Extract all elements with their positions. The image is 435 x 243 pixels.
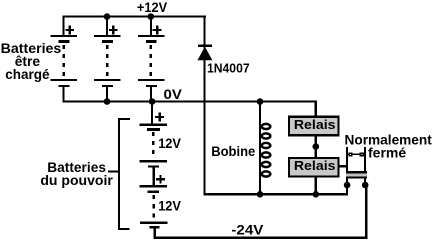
wire 0V rail xyxy=(63,100,317,102)
relay K1 box xyxy=(289,117,338,136)
battery P2 12V xyxy=(140,175,168,237)
label Normalement fermé xyxy=(345,131,433,160)
battery B1 xyxy=(51,18,78,101)
power battery stack wire from 0V xyxy=(151,103,153,124)
node dot 0V rail battery B2 xyxy=(104,98,111,105)
node dot between relays xyxy=(313,143,320,150)
inductor Bobine coil loops xyxy=(262,124,271,177)
node dot top rail battery B2 xyxy=(104,13,111,20)
node dot 0V rail battery B3 / power stack xyxy=(149,98,156,105)
battery B3 xyxy=(138,18,165,101)
contact NC right terminal xyxy=(364,147,366,185)
svg-text:Relais: Relais xyxy=(294,117,336,132)
svg-text:Relais: Relais xyxy=(294,158,336,173)
bracket power batteries xyxy=(108,118,130,230)
node dot bottom link coil xyxy=(257,191,264,198)
linkage bar (grey) xyxy=(346,171,367,179)
relay branch wire below box2 xyxy=(315,178,317,194)
coil branch wire xyxy=(259,103,261,194)
battery P1 12V xyxy=(140,113,167,186)
svg-text:fermé: fermé xyxy=(368,144,406,160)
wire contact right to -24V rail xyxy=(365,185,367,239)
svg-text:0V: 0V xyxy=(164,86,183,102)
node dot top rail battery B3 xyxy=(148,13,155,20)
svg-text:1N4007: 1N4007 xyxy=(207,61,250,76)
svg-text:+12V: +12V xyxy=(137,0,168,15)
wire -24V rail xyxy=(154,236,368,239)
node dot 0V rail coil branch xyxy=(257,98,264,105)
contact NC bridge xyxy=(348,152,364,156)
svg-text:12V: 12V xyxy=(158,135,181,151)
label Batteries du pouvoir xyxy=(40,159,113,188)
svg-text:du pouvoir: du pouvoir xyxy=(40,172,113,188)
contact NC left terminal xyxy=(346,147,348,195)
wire relay K2 to contact xyxy=(340,165,347,167)
label Batteries être chargé xyxy=(1,40,62,82)
node dot contact right xyxy=(362,182,369,189)
wire top +12V rail xyxy=(63,16,207,18)
svg-text:-24V: -24V xyxy=(231,222,264,238)
svg-text:Bobine: Bobine xyxy=(211,143,255,159)
diode D1 1N4007 xyxy=(197,18,212,196)
node dot bottom link relay wire xyxy=(313,191,320,198)
wire bottom link (diode/coil to contact) xyxy=(203,193,348,195)
relay branch wire from 0V rail xyxy=(315,100,317,115)
battery B2 xyxy=(94,18,121,101)
node dot contact left xyxy=(344,182,351,189)
relay K2 box xyxy=(289,158,339,177)
relay branch wire between boxes xyxy=(315,136,317,157)
svg-text:chargé: chargé xyxy=(5,66,49,82)
svg-text:12V: 12V xyxy=(158,197,181,213)
